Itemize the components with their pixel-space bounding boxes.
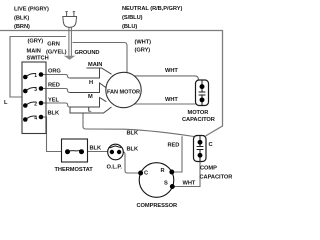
svg-text:(BLU): (BLU) — [122, 24, 137, 30]
svg-text:BLK: BLK — [127, 147, 139, 153]
svg-text:CAPACITOR: CAPACITOR — [182, 117, 215, 123]
svg-text:BLK: BLK — [127, 131, 139, 137]
svg-text:WHT: WHT — [183, 181, 196, 187]
svg-text:ORG: ORG — [48, 69, 61, 75]
svg-text:(BLK): (BLK) — [14, 16, 29, 22]
svg-text:COMP: COMP — [200, 166, 217, 172]
svg-text:WHT: WHT — [165, 97, 178, 103]
svg-text:NEUTRAL (R/B,P/GRY): NEUTRAL (R/B,P/GRY) — [122, 6, 183, 12]
svg-text:BLK: BLK — [48, 111, 60, 117]
svg-text:GROUND: GROUND — [75, 50, 100, 56]
svg-text:H: H — [89, 80, 93, 86]
svg-text:COMPRESSOR: COMPRESSOR — [137, 203, 178, 209]
svg-text:3: 3 — [34, 87, 37, 93]
svg-text:GRN: GRN — [47, 42, 60, 48]
svg-text:(G/YEL): (G/YEL) — [46, 50, 67, 56]
svg-text:YEL: YEL — [48, 98, 59, 104]
svg-text:C: C — [209, 142, 213, 148]
svg-text:L: L — [88, 108, 92, 114]
svg-text:1: 1 — [34, 73, 37, 79]
svg-text:M: M — [88, 94, 93, 100]
svg-text:R: R — [161, 168, 165, 174]
svg-text:MOTOR: MOTOR — [188, 110, 209, 116]
svg-text:(WHT): (WHT) — [135, 40, 152, 46]
svg-text:WHT: WHT — [165, 68, 178, 74]
svg-text:C: C — [144, 171, 148, 177]
svg-text:L: L — [4, 100, 8, 106]
svg-text:(BRN): (BRN) — [14, 24, 30, 30]
svg-text:RED: RED — [168, 143, 180, 149]
svg-text:BLK: BLK — [90, 146, 102, 152]
svg-text:(GRY): (GRY) — [28, 39, 44, 45]
svg-text:O.L.P.: O.L.P. — [107, 165, 123, 171]
svg-text:SWITCH: SWITCH — [27, 56, 49, 62]
svg-text:S: S — [164, 181, 168, 187]
svg-text:THERMOSTAT: THERMOSTAT — [55, 167, 94, 173]
svg-text:MAIN: MAIN — [27, 49, 41, 55]
svg-text:MAIN: MAIN — [88, 62, 102, 68]
svg-text:CAPACITOR: CAPACITOR — [200, 175, 233, 181]
svg-text:(S/BLU): (S/BLU) — [122, 15, 143, 21]
svg-text:2: 2 — [34, 102, 37, 108]
svg-text:RED: RED — [48, 83, 60, 89]
svg-text:(GRY): (GRY) — [135, 48, 151, 54]
svg-text:FAN MOTOR: FAN MOTOR — [107, 90, 140, 96]
svg-text:LIVE (P/GRY): LIVE (P/GRY) — [14, 7, 49, 13]
svg-text:4: 4 — [34, 116, 37, 122]
